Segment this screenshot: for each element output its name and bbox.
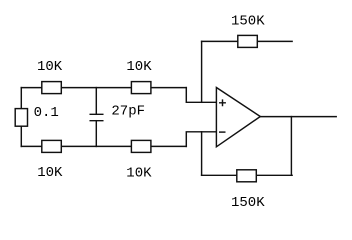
op-amp U1 xyxy=(216,88,260,147)
wire: top input rail xyxy=(21,87,186,89)
wire: bottom feedback vertical xyxy=(201,132,203,176)
wire: left vertical rail xyxy=(20,88,22,147)
svg-text:10K: 10K xyxy=(126,165,152,181)
resistor R3 10K bottom-left xyxy=(42,140,62,152)
svg-text:150K: 150K xyxy=(231,195,265,211)
svg-text:150K: 150K xyxy=(231,13,265,29)
resistor R2 10K top-middle xyxy=(131,82,151,94)
resistor R7 150K bottom xyxy=(237,170,256,182)
svg-text:10K: 10K xyxy=(37,165,63,181)
wire: top feedback rail xyxy=(202,40,293,42)
wire: capacitor branch lower xyxy=(95,121,97,147)
svg-text:0.1: 0.1 xyxy=(34,105,59,121)
wire: output xyxy=(260,116,336,118)
wire: bottom input rail xyxy=(21,145,186,147)
svg-text:10K: 10K xyxy=(37,59,63,75)
resistor R1 10K top-left xyxy=(42,82,62,94)
wire: bottom feedback rail xyxy=(202,174,293,176)
op-amp plus input symbol xyxy=(219,99,226,106)
wire: step to noninverting input xyxy=(186,88,217,103)
svg-text:27pF: 27pF xyxy=(111,104,145,120)
wire: capacitor branch upper xyxy=(95,88,97,115)
resistor R6 150K top xyxy=(238,35,257,47)
wire: top feedback vertical xyxy=(201,41,203,102)
resistor R5 0.1 vertical xyxy=(15,109,27,127)
wire: step to inverting input xyxy=(186,132,217,147)
capacitor C1 plates (27pF) xyxy=(90,114,103,120)
op-amp minus input symbol xyxy=(219,131,226,133)
svg-text:10K: 10K xyxy=(126,59,152,75)
wire: output to feedback vertical xyxy=(290,117,292,176)
resistor R4 10K bottom-middle xyxy=(131,140,151,152)
